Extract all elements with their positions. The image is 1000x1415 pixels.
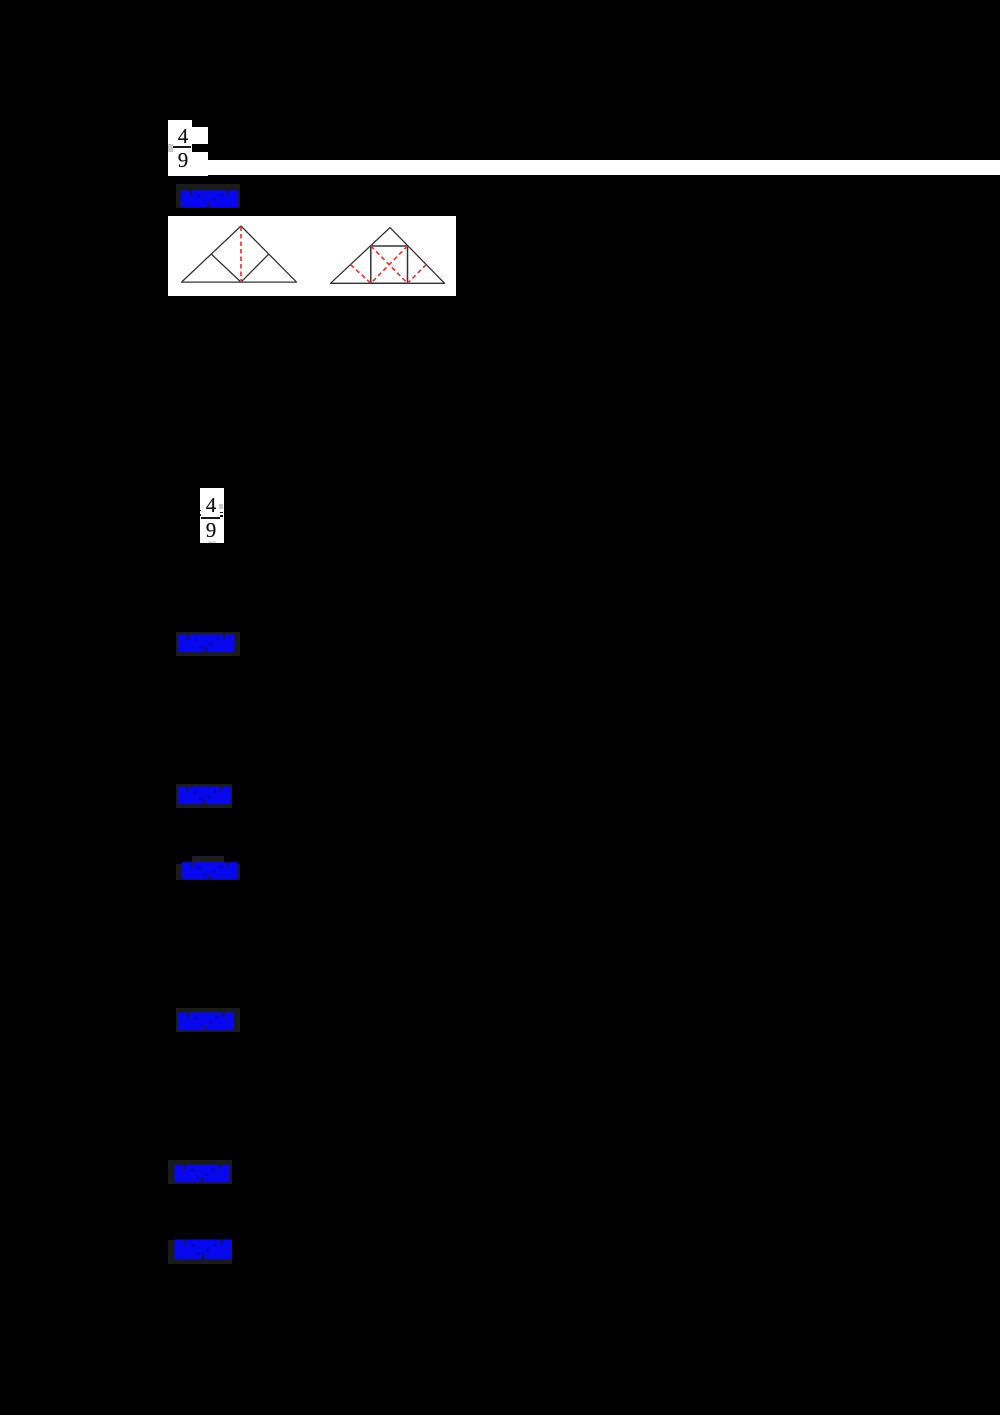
fraction F1 numerator-side white patch: [192, 127, 208, 144]
fraction F2 bar: [201, 517, 220, 518]
fraction F2 denominator 9: [199, 522, 223, 539]
left big triangle: [182, 226, 297, 282]
fraction F1 lower-right white patch: [192, 152, 208, 176]
label L4 jieda blue text: [176, 861, 240, 887]
fraction F1 numerator 4: [171, 128, 195, 145]
inscribed square: [371, 246, 408, 283]
label L3 fenxi blue text: [176, 781, 232, 807]
label L6 fenxi background box: [168, 1160, 232, 1184]
fraction F2 gray patch right of numerator: [219, 504, 223, 509]
label L1 jieda blue text: [176, 181, 240, 207]
label L4 jieda dark patch above: [192, 856, 224, 864]
label L5 dianping blue text: [176, 1005, 240, 1031]
right red dashed X and fold lines: [351, 246, 427, 283]
fraction F1 denominator 9: [171, 152, 195, 169]
label L3 fenxi background box: [176, 784, 232, 808]
label L4 jieda background box: [176, 864, 240, 880]
label L7 jieda background box: [168, 1240, 232, 1264]
label L1 jieda background box: [176, 184, 240, 208]
fraction F1 white background box: [168, 120, 192, 176]
label L2 dianping blue text: [176, 629, 240, 655]
label L5 dianping background box: [176, 1008, 240, 1032]
fraction F1 gray caret square: [168, 144, 173, 152]
fraction F2 left edge tick bottom: [200, 514, 201, 516]
right big triangle: [331, 227, 445, 283]
fraction F2 equals tick bottom: [220, 515, 223, 517]
left inner midlines: [211, 254, 269, 282]
fraction F2 gray patch below denominator: [208, 541, 216, 543]
fraction F2 left edge tick top: [200, 510, 201, 512]
label L6 fenxi blue text: [168, 1157, 232, 1183]
fraction F2 white background box: [200, 488, 224, 544]
figure white box: [168, 216, 456, 296]
fraction F1 bar: [173, 146, 191, 148]
label L7 jieda blue text: [168, 1237, 232, 1263]
fraction F2 equals tick top: [220, 512, 223, 514]
label L2 dianping background box: [176, 632, 240, 656]
fraction F2 numerator 4: [199, 497, 223, 514]
white text-line strip row 1: [208, 160, 1000, 176]
left red dashed altitude: [240, 226, 242, 282]
